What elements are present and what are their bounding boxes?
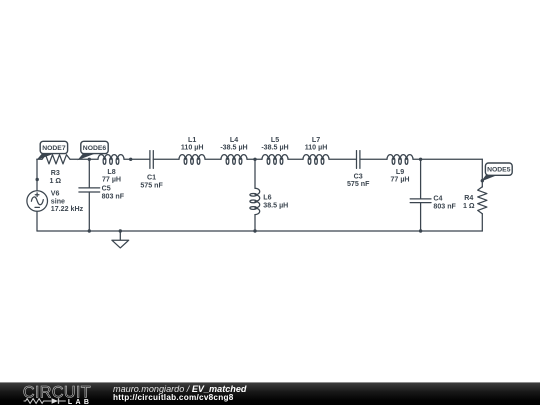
svg-text:575 nF: 575 nF — [140, 182, 163, 190]
svg-text:17.22 kHz: 17.22 kHz — [51, 205, 84, 213]
svg-text:L8: L8 — [107, 168, 115, 176]
svg-text:-38.5 µH: -38.5 µH — [220, 144, 247, 152]
svg-text:-38.5 µH: -38.5 µH — [261, 144, 288, 152]
svg-text:110 µH: 110 µH — [181, 144, 204, 152]
svg-text:1 Ω: 1 Ω — [463, 202, 475, 210]
svg-text:LAB: LAB — [68, 398, 92, 405]
svg-text:77 µH: 77 µH — [102, 176, 121, 184]
svg-text:C3: C3 — [354, 172, 363, 180]
svg-text:C4: C4 — [433, 195, 442, 203]
svg-text:C5: C5 — [102, 185, 111, 193]
svg-text:L7: L7 — [312, 136, 320, 144]
svg-text:L9: L9 — [396, 168, 404, 176]
svg-text:803 nF: 803 nF — [102, 193, 125, 201]
svg-text:R3: R3 — [51, 169, 60, 177]
svg-text:NODE6: NODE6 — [83, 145, 107, 152]
svg-text:L4: L4 — [230, 136, 238, 144]
svg-text:77 µH: 77 µH — [390, 176, 409, 184]
svg-text:803 nF: 803 nF — [433, 202, 456, 210]
svg-text:C1: C1 — [147, 174, 156, 182]
svg-text:L6: L6 — [263, 194, 271, 202]
svg-text:R4: R4 — [464, 194, 473, 202]
svg-text:L5: L5 — [271, 136, 279, 144]
svg-text:38.5 µH: 38.5 µH — [263, 201, 288, 209]
svg-text:110 µH: 110 µH — [305, 144, 328, 152]
svg-text:NODE5: NODE5 — [487, 167, 511, 174]
svg-text:sine: sine — [51, 197, 65, 205]
svg-text:NODE7: NODE7 — [42, 145, 66, 152]
svg-text:1 Ω: 1 Ω — [49, 177, 61, 185]
svg-text:V6: V6 — [51, 190, 60, 198]
svg-text:L1: L1 — [188, 136, 196, 144]
svg-text:575 nF: 575 nF — [347, 180, 370, 188]
